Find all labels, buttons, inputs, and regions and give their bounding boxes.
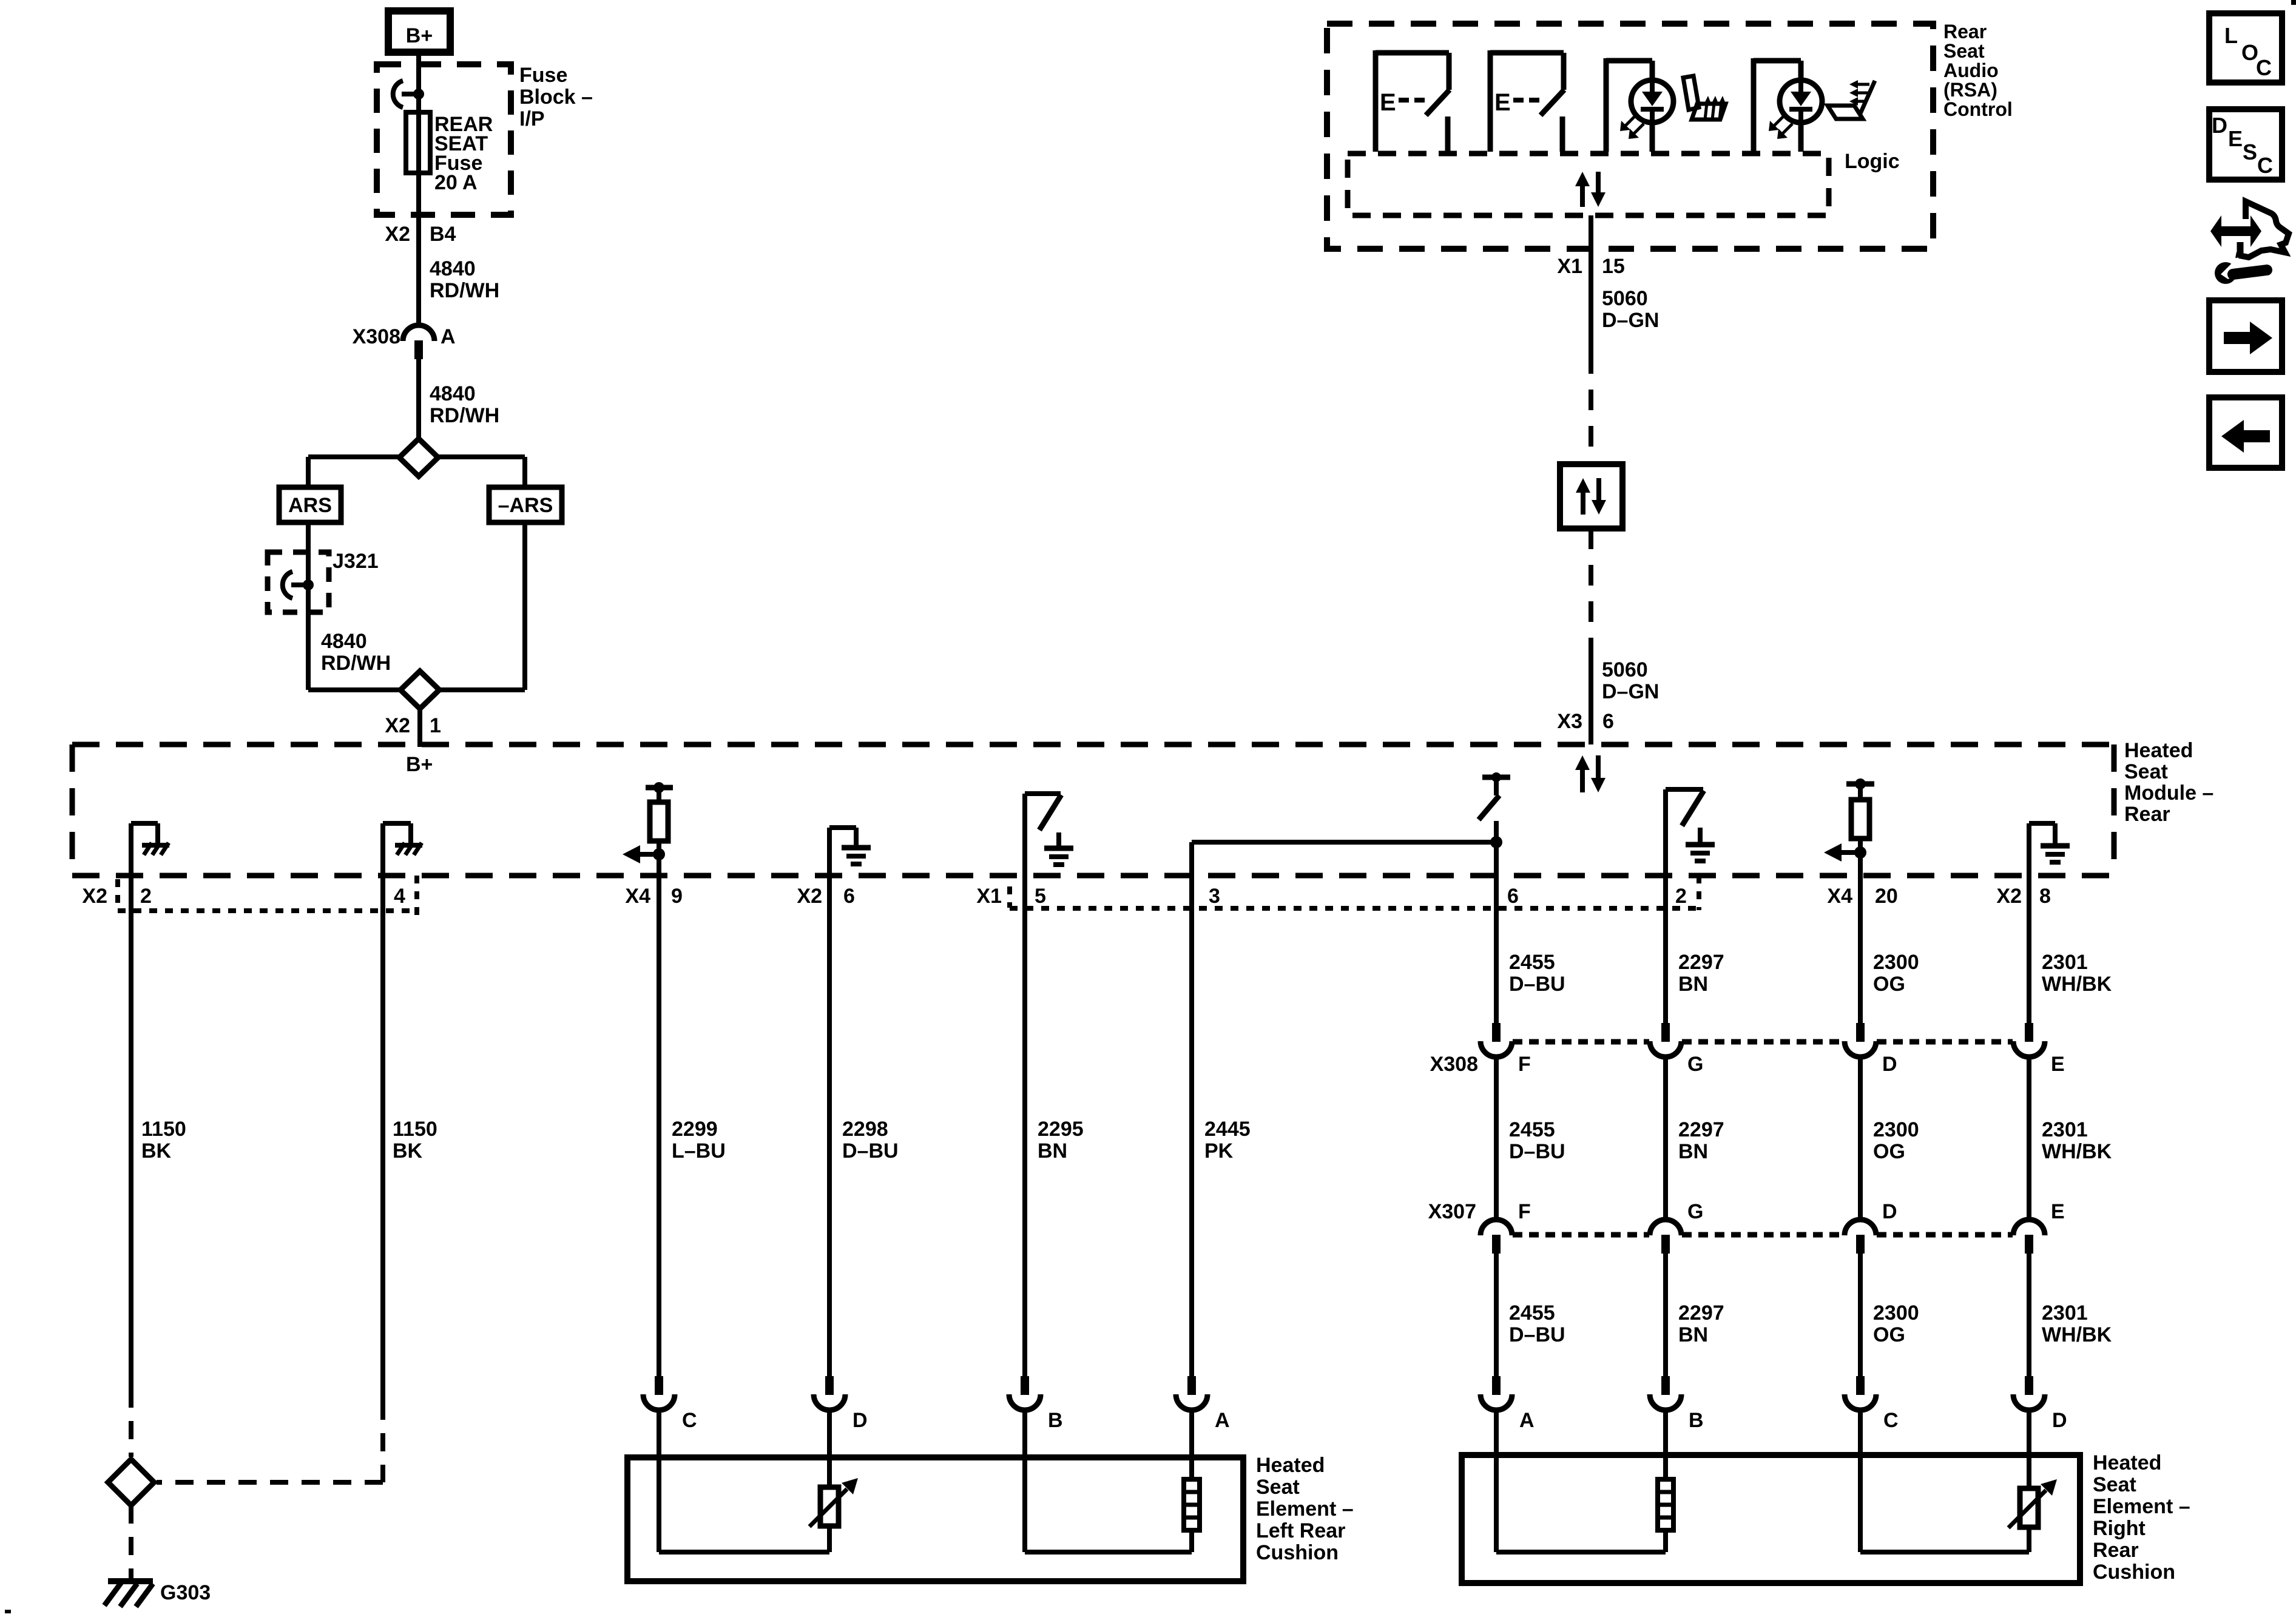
- svg-text:2301: 2301: [2042, 951, 2088, 974]
- label 2301 WH/BK (below X307): [2042, 1301, 2112, 1346]
- wire 2298 D–BU: [827, 876, 832, 1377]
- wire fuse to X2 B4: [416, 174, 421, 328]
- svg-text:2299: 2299: [672, 1118, 718, 1141]
- left element heater resistive ladder: [1184, 1459, 1200, 1552]
- svg-text:X4: X4: [625, 885, 650, 908]
- wire 2300 OG X307 to seat element: [1858, 1252, 1863, 1377]
- pin label X1 15: [1557, 255, 1624, 278]
- svg-text:–ARS: –ARS: [498, 494, 553, 517]
- label 2455 D–BU (between connectors): [1509, 1118, 1565, 1163]
- svg-text:2297: 2297: [1678, 1301, 1724, 1325]
- svg-text:E: E: [1494, 89, 1511, 116]
- left element thermistor (variable resistor): [809, 1459, 858, 1552]
- wire splice to module pin X2 1: [417, 709, 422, 747]
- svg-text:Heated: Heated: [2124, 739, 2193, 762]
- label Fuse Block - I/P: [519, 64, 593, 130]
- label 2295 BN: [1038, 1118, 1084, 1163]
- svg-text:A: A: [441, 325, 456, 348]
- svg-text:B+: B+: [406, 24, 433, 47]
- svg-text:A: A: [1519, 1409, 1535, 1432]
- label J321: [333, 550, 379, 573]
- svg-text:2455: 2455: [1509, 1301, 1555, 1325]
- label Heated Seat Module - Rear: [2124, 739, 2213, 826]
- right element wire A to heater: [1496, 1456, 1666, 1552]
- label 2298 D–BU: [842, 1118, 899, 1163]
- module internal switch + ground at pin X1 5: [1025, 794, 1073, 876]
- RSA LED indicator 2: [1754, 58, 1822, 152]
- module internal ground at pin 2: [131, 823, 169, 876]
- wire 2455 D–BU X307 to seat element: [1494, 1252, 1499, 1377]
- label 2455 D–BU (below X307): [1509, 1301, 1565, 1346]
- connector terminal A (left element): [1176, 1376, 1207, 1459]
- svg-text:L: L: [2224, 23, 2238, 48]
- label 1150 BK (left): [141, 1118, 186, 1163]
- connector terminal B (right element): [1650, 1376, 1681, 1457]
- svg-text:X2: X2: [797, 885, 822, 908]
- wire 2295 BN: [1022, 876, 1027, 1377]
- svg-text:4840: 4840: [430, 257, 476, 280]
- left element wire B to heater: [1025, 1459, 1192, 1552]
- terminal letter B: [1689, 1409, 1704, 1432]
- svg-text:2301: 2301: [2042, 1118, 2088, 1141]
- terminal letter D: [2052, 1409, 2067, 1432]
- label 2297 BN (below X307): [1678, 1301, 1724, 1346]
- label 5060 D-GN (upper): [1602, 287, 1659, 332]
- svg-text:D–BU: D–BU: [842, 1139, 899, 1163]
- label 1150 BK (right): [393, 1118, 437, 1163]
- svg-text:BK: BK: [393, 1139, 423, 1163]
- svg-text:15: 15: [1602, 255, 1625, 278]
- module internal ground at pin 4: [383, 823, 422, 876]
- logic serial data arrows: [1575, 172, 1606, 207]
- right element thermistor (variable resistor): [2008, 1456, 2057, 1552]
- svg-text:B4: B4: [430, 223, 456, 246]
- connector X1 dotted outline: [1010, 876, 1699, 910]
- X308 terminal letter F: [1518, 1053, 1531, 1076]
- label 2301 WH/BK (between connectors): [2042, 1118, 2112, 1163]
- svg-text:S: S: [2243, 140, 2257, 164]
- svg-text:Module –: Module –: [2124, 781, 2213, 805]
- svg-text:Cushion: Cushion: [2093, 1561, 2175, 1584]
- pin label 3: [1209, 885, 1220, 908]
- module internal switch at pin 6: [1479, 772, 1510, 876]
- svg-text:Logic: Logic: [1845, 150, 1900, 173]
- pin label X2 6: [797, 885, 855, 908]
- svg-text:20 A: 20 A: [434, 171, 478, 194]
- RSA switch 2: [1490, 50, 1564, 152]
- svg-text:C: C: [2257, 153, 2273, 178]
- ground G303: [104, 1581, 153, 1607]
- right element wire C to thermistor: [1860, 1456, 2029, 1552]
- svg-text:D–GN: D–GN: [1602, 309, 1659, 332]
- svg-text:Element –: Element –: [2093, 1495, 2190, 1518]
- connector X307 terminal G: [1650, 1220, 1681, 1254]
- svg-text:Seat: Seat: [1256, 1476, 1300, 1499]
- connector terminal C (right element): [1845, 1376, 1876, 1457]
- svg-text:BN: BN: [1678, 1323, 1708, 1346]
- svg-text:B: B: [1689, 1409, 1704, 1432]
- module internal ground at pin X2 6: [829, 828, 871, 876]
- svg-text:5060: 5060: [1602, 287, 1648, 310]
- svg-text:4: 4: [394, 885, 405, 908]
- connector X308 pin A: [403, 325, 434, 439]
- svg-text:G: G: [1687, 1200, 1703, 1223]
- label Heated Seat Element - Right Rear Cushion: [2093, 1451, 2190, 1584]
- X308 terminal letter D: [1882, 1053, 1897, 1076]
- svg-text:1: 1: [430, 714, 441, 737]
- module internal switch + ground at pin 2 (right): [1666, 789, 1715, 876]
- B+ battery positive voltage box: [388, 11, 450, 52]
- svg-text:20: 20: [1875, 885, 1898, 908]
- splice diamond (upper): [399, 439, 438, 476]
- svg-text:4840: 4840: [321, 630, 367, 653]
- svg-text:X308: X308: [1430, 1053, 1478, 1076]
- RSA seat heat icon 2: [1828, 80, 1875, 119]
- connector X307 terminal F: [1481, 1220, 1512, 1254]
- svg-text:E: E: [1380, 89, 1396, 116]
- label wire 4840 RD/WH (at J321): [321, 630, 391, 675]
- terminal letter C: [682, 1409, 697, 1432]
- svg-text:RD/WH: RD/WH: [321, 652, 391, 675]
- label 2300 OG (below X307): [1873, 1301, 1919, 1346]
- svg-text:C: C: [2256, 55, 2272, 80]
- svg-text:D: D: [853, 1409, 868, 1432]
- pin label 4: [394, 885, 405, 908]
- pin label X3 6: [1557, 710, 1614, 733]
- pin label X2 1: [385, 714, 441, 737]
- connector X307 terminal E: [2013, 1220, 2045, 1254]
- label 2455 D–BU (above X308): [1509, 951, 1565, 996]
- svg-text:2297: 2297: [1678, 1118, 1724, 1141]
- label Rear Seat Audio (RSA) Control: [1943, 21, 2013, 120]
- connector X307 terminal D: [1845, 1220, 1876, 1254]
- svg-text:OG: OG: [1873, 1323, 1905, 1346]
- svg-text:Seat: Seat: [1943, 40, 1985, 62]
- svg-text:X307: X307: [1428, 1200, 1476, 1223]
- svg-text:6: 6: [1507, 885, 1519, 908]
- svg-text:2300: 2300: [1873, 1301, 1919, 1325]
- svg-text:9: 9: [671, 885, 683, 908]
- wire 5060 D-GN (lower): [1589, 528, 1593, 744]
- X307 terminal letter F: [1518, 1200, 1531, 1223]
- svg-text:D: D: [1882, 1200, 1897, 1223]
- label X308: [1430, 1053, 1478, 1076]
- splice diamond to G303: [108, 1459, 154, 1505]
- svg-text:D–BU: D–BU: [1509, 1140, 1565, 1163]
- X308 terminal letter E: [2051, 1053, 2065, 1076]
- wire to ARS switch: [308, 457, 399, 487]
- wire 2301 WH/BK X307 to seat element: [2027, 1252, 2031, 1377]
- svg-text:Rear: Rear: [2124, 803, 2170, 826]
- svg-text:PK: PK: [1204, 1139, 1234, 1163]
- svg-text:Left Rear: Left Rear: [1256, 1519, 1345, 1542]
- connector X307 dashed links: [1513, 1232, 2013, 1238]
- wire 2297 BN X307 to seat element: [1663, 1252, 1668, 1377]
- label G303: [160, 1581, 211, 1604]
- label 2300 OG (above X308): [1873, 951, 1919, 996]
- connector terminal B (left element): [1009, 1376, 1041, 1459]
- svg-text:(RSA): (RSA): [1943, 79, 1997, 101]
- svg-text:BN: BN: [1678, 1140, 1708, 1163]
- svg-text:4840: 4840: [430, 382, 476, 405]
- label X307: [1428, 1200, 1476, 1223]
- connector X308 terminal E: [2013, 1023, 2045, 1057]
- svg-text:X308: X308: [353, 325, 400, 348]
- svg-text:Fuse: Fuse: [519, 64, 567, 87]
- pin label X2 2: [82, 885, 152, 908]
- Heated Seat Element - Right Rear Cushion box: [1462, 1455, 2080, 1583]
- svg-text:BN: BN: [1038, 1139, 1067, 1163]
- svg-text:OG: OG: [1873, 973, 1905, 996]
- svg-text:D: D: [1882, 1053, 1897, 1076]
- pin label X4 9: [625, 885, 683, 908]
- net label B+: [406, 753, 433, 776]
- label 5060 D-GN (lower): [1602, 658, 1659, 703]
- module internal ground at pin X2 8: [2029, 823, 2070, 876]
- svg-text:C: C: [1883, 1409, 1899, 1432]
- wire B+ to fuse: [416, 52, 421, 113]
- svg-text:2455: 2455: [1509, 951, 1555, 974]
- svg-text:2295: 2295: [1038, 1118, 1084, 1141]
- wire 2301 WH/BK X308 to X307: [2027, 1055, 2031, 1220]
- wire 2300 OG module to X308: [1858, 876, 1863, 1024]
- pin label X2 B4: [385, 223, 456, 246]
- svg-text:OG: OG: [1873, 1140, 1905, 1163]
- svg-text:2: 2: [1675, 885, 1687, 908]
- svg-text:6: 6: [843, 885, 855, 908]
- -ARS box: [489, 487, 562, 522]
- svg-text:2300: 2300: [1873, 1118, 1919, 1141]
- X308 terminal letter G: [1687, 1053, 1703, 1076]
- car diagnostic icon double arrow: [2210, 215, 2261, 247]
- svg-text:ARS: ARS: [288, 494, 332, 517]
- splice J321 dashed box: [268, 552, 329, 612]
- wire 1150 BK pin 2: [129, 876, 133, 1457]
- label X308 A: [353, 325, 456, 348]
- svg-text:A: A: [1215, 1409, 1230, 1432]
- RSA seat heat icon 1: [1683, 76, 1726, 120]
- terminal letter A: [1519, 1409, 1535, 1432]
- module internal serial data arrows at pin X3 6: [1575, 755, 1606, 792]
- module internal wire pin 3 to pin 6 junction: [1192, 842, 1496, 876]
- svg-text:8: 8: [2039, 885, 2051, 908]
- terminal letter B: [1048, 1409, 1063, 1432]
- label 2445 PK: [1204, 1118, 1251, 1163]
- wire 2455 D–BU module to X308: [1494, 876, 1499, 1024]
- label 2300 OG (between connectors): [1873, 1118, 1919, 1163]
- svg-text:Seat: Seat: [2124, 760, 2168, 783]
- label 2299 L–BU: [672, 1118, 726, 1163]
- X307 terminal letter D: [1882, 1200, 1897, 1223]
- svg-text:I/P: I/P: [519, 107, 545, 130]
- svg-text:Rear: Rear: [1943, 21, 1987, 42]
- label 2301 WH/BK (above X308): [2042, 951, 2112, 996]
- svg-text:Right: Right: [2093, 1517, 2146, 1540]
- wrench icon: [2215, 257, 2267, 284]
- svg-text:Element –: Element –: [1256, 1497, 1354, 1521]
- svg-text:2300: 2300: [1873, 951, 1919, 974]
- svg-text:BN: BN: [1678, 973, 1708, 996]
- svg-text:B+: B+: [406, 753, 433, 776]
- svg-text:X1: X1: [976, 885, 1002, 908]
- svg-text:Seat: Seat: [2093, 1473, 2136, 1496]
- connector terminal C (left element): [643, 1376, 675, 1459]
- svg-text:X2: X2: [385, 714, 410, 737]
- module internal resistor + output arrow at pin X4 20: [1824, 778, 1874, 876]
- svg-text:E: E: [2228, 126, 2243, 151]
- RSA logic dashed box: [1348, 154, 1829, 215]
- svg-text:WH/BK: WH/BK: [2042, 1140, 2112, 1163]
- svg-text:2: 2: [140, 885, 152, 908]
- svg-text:G: G: [1687, 1053, 1703, 1076]
- wire logic to X1 15: [1589, 215, 1593, 250]
- pin label X1 5: [976, 885, 1046, 908]
- svg-text:D–BU: D–BU: [1509, 1323, 1565, 1346]
- wire 2299 L–BU: [657, 876, 661, 1377]
- module internal resistor + output arrow at pin X4 9: [623, 782, 673, 876]
- svg-text:Rear: Rear: [2093, 1539, 2139, 1562]
- J321 clip symbol: [283, 572, 314, 598]
- label 2297 BN (above X308): [1678, 951, 1724, 996]
- Heated Seat Module - Rear dashed box: [72, 744, 2114, 876]
- DESC navigation box: [2209, 109, 2282, 180]
- RSA switch 1: [1376, 50, 1450, 152]
- svg-text:5060: 5060: [1602, 658, 1648, 681]
- wire 2297 BN X308 to X307: [1663, 1055, 1668, 1220]
- svg-text:X2: X2: [385, 223, 410, 246]
- svg-text:Heated: Heated: [1256, 1454, 1325, 1477]
- svg-text:E: E: [2051, 1053, 2065, 1076]
- X307 terminal letter G: [1687, 1200, 1703, 1223]
- pin label X2 8: [1996, 885, 2051, 908]
- connector terminal A (right element): [1481, 1376, 1512, 1457]
- svg-text:2298: 2298: [842, 1118, 888, 1141]
- right element heater resistive ladder: [1658, 1456, 1673, 1552]
- Rear Seat Audio RSA Control dashed box: [1327, 24, 1933, 249]
- bus bar clip in fuse block: [393, 81, 424, 107]
- svg-text:RD/WH: RD/WH: [430, 279, 499, 302]
- wire 5060 D-GN (upper): [1589, 250, 1593, 464]
- svg-text:Heated: Heated: [2093, 1451, 2161, 1474]
- svg-text:Block –: Block –: [519, 86, 593, 109]
- back navigation arrow box: [2209, 397, 2282, 468]
- connector X308 dashed links: [1513, 1039, 2013, 1045]
- svg-text:X3: X3: [1557, 710, 1582, 733]
- pin label 2: [1675, 885, 1687, 908]
- connector X308 terminal D: [1845, 1023, 1876, 1057]
- wire 2445 PK: [1189, 876, 1194, 1377]
- svg-text:D: D: [2052, 1409, 2067, 1432]
- connector X308 terminal F: [1481, 1023, 1512, 1057]
- car diagnostic icon body outline: [2236, 201, 2289, 257]
- wire to -ARS switch: [438, 457, 525, 487]
- wire ARS down: [308, 522, 401, 690]
- label Heated Seat Element - Left Rear Cushion: [1256, 1454, 1354, 1564]
- terminal letter C: [1883, 1409, 1899, 1432]
- label Logic: [1845, 150, 1900, 173]
- serial data link box: [1560, 464, 1622, 528]
- svg-text:J321: J321: [333, 550, 379, 573]
- RSA LED indicator 1: [1606, 58, 1673, 152]
- svg-text:D: D: [2212, 113, 2227, 138]
- label REAR SEAT Fuse 20 A: [434, 113, 493, 194]
- svg-text:WH/BK: WH/BK: [2042, 973, 2112, 996]
- svg-text:X1: X1: [1557, 255, 1582, 278]
- svg-text:3: 3: [1209, 885, 1220, 908]
- svg-text:BK: BK: [141, 1139, 172, 1163]
- svg-text:Cushion: Cushion: [1256, 1541, 1339, 1564]
- left element wire C to thermistor: [659, 1459, 829, 1552]
- connector X308 terminal G: [1650, 1023, 1681, 1057]
- svg-text:D–BU: D–BU: [1509, 973, 1565, 996]
- label wire 4840 RD/WH (upper): [430, 257, 499, 302]
- wire 2300 OG X308 to X307: [1858, 1055, 1863, 1220]
- fuse block I/P dashed box: [377, 64, 511, 215]
- svg-text:1150: 1150: [141, 1118, 186, 1141]
- terminal letter A: [1215, 1409, 1230, 1432]
- pin label 6: [1507, 885, 1519, 908]
- wire 2301 WH/BK module to X308: [2027, 876, 2031, 1024]
- X307 terminal letter E: [2051, 1200, 2065, 1223]
- svg-text:X4: X4: [1827, 885, 1852, 908]
- wire -ARS down: [439, 522, 525, 690]
- splice diamond (lower): [400, 671, 439, 709]
- wire 1150 BK pin 4: [157, 876, 383, 1482]
- ARS box: [279, 487, 341, 522]
- svg-text:6: 6: [1602, 710, 1614, 733]
- svg-text:5: 5: [1035, 885, 1046, 908]
- svg-text:X2: X2: [82, 885, 107, 908]
- pin label X4 20: [1827, 885, 1897, 908]
- svg-text:E: E: [2051, 1200, 2065, 1223]
- svg-text:2455: 2455: [1509, 1118, 1555, 1141]
- svg-text:C: C: [682, 1409, 697, 1432]
- LOC navigation box: [2209, 13, 2282, 83]
- forward navigation arrow box: [2209, 300, 2282, 372]
- connector X2 dotted outline: [118, 876, 417, 916]
- svg-text:2301: 2301: [2042, 1301, 2088, 1325]
- svg-text:2445: 2445: [1204, 1118, 1251, 1141]
- svg-text:F: F: [1518, 1053, 1531, 1076]
- svg-text:L–BU: L–BU: [672, 1139, 726, 1163]
- svg-text:G303: G303: [160, 1581, 211, 1604]
- svg-text:D–GN: D–GN: [1602, 680, 1659, 703]
- svg-text:1150: 1150: [393, 1118, 437, 1141]
- wire 2455 D–BU X308 to X307: [1494, 1055, 1499, 1220]
- wire splice to G303: [129, 1505, 133, 1578]
- svg-text:F: F: [1518, 1200, 1531, 1223]
- svg-text:Audio: Audio: [1943, 59, 1999, 81]
- svg-text:B: B: [1048, 1409, 1063, 1432]
- svg-text:RD/WH: RD/WH: [430, 404, 499, 427]
- label 2297 BN (between connectors): [1678, 1118, 1724, 1163]
- terminal letter D: [853, 1409, 868, 1432]
- Heated Seat Element - Left Rear Cushion box: [627, 1457, 1243, 1581]
- connector terminal D (right element): [2013, 1376, 2045, 1457]
- fuse REAR SEAT 20 A: [406, 112, 430, 173]
- svg-text:X2: X2: [1996, 885, 2022, 908]
- svg-text:2297: 2297: [1678, 951, 1724, 974]
- wire 2297 BN module to X308: [1663, 876, 1668, 1024]
- label wire 4840 RD/WH (below X308): [430, 382, 499, 427]
- svg-text:WH/BK: WH/BK: [2042, 1323, 2112, 1346]
- connector terminal D (left element): [814, 1376, 845, 1459]
- svg-text:Control: Control: [1943, 98, 2013, 120]
